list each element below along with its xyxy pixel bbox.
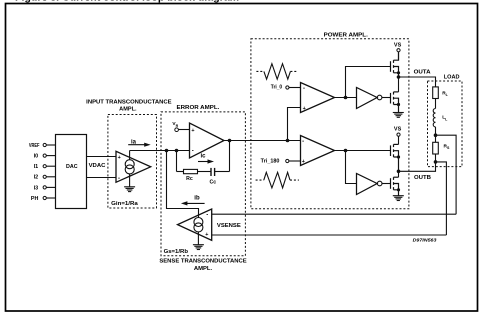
LOAD dashed box bbox=[428, 81, 463, 167]
summing wire to error amp bbox=[130, 150, 190, 152]
inductor LL bbox=[433, 109, 435, 127]
ib wire from sense amp bbox=[167, 151, 199, 218]
wire L to node1 bbox=[435, 127, 437, 142]
branch node1 to sense top wire bbox=[436, 135, 457, 214]
resistor Rs bbox=[433, 142, 439, 154]
U1 ground stem bbox=[129, 174, 131, 187]
error + sense combined dashed box bbox=[161, 112, 245, 256]
U1 current source circles bbox=[125, 160, 134, 169]
Tri_0 terminal bbox=[286, 86, 289, 89]
ia arrow bbox=[128, 139, 151, 146]
svg-text:ib: ib bbox=[194, 196, 200, 202]
pin I1 wire bbox=[46, 165, 55, 167]
svg-text:I0: I0 bbox=[34, 154, 39, 160]
input transconductance amp triangle U1 bbox=[116, 151, 151, 182]
svg-text:-: - bbox=[206, 213, 208, 219]
svg-text:SENSE TRANSCONDUCTANCE: SENSE TRANSCONDUCTANCE bbox=[159, 259, 247, 265]
pin labels bbox=[29, 143, 40, 202]
svg-text:AMPL.: AMPL. bbox=[194, 266, 213, 272]
svg-text:-: - bbox=[192, 148, 194, 154]
svg-text:VREF: VREF bbox=[29, 143, 40, 149]
inverter B bbox=[357, 174, 378, 195]
wire Rs to node2 bbox=[435, 154, 437, 162]
node OUTB bbox=[397, 170, 401, 174]
error output wire to comparators bbox=[224, 140, 301, 142]
svg-text:I3: I3 bbox=[34, 185, 39, 191]
svg-text:LOAD: LOAD bbox=[444, 75, 460, 81]
node2 bbox=[434, 160, 438, 164]
MOSFET B high-side bbox=[391, 144, 399, 171]
OUTA wire to load bbox=[399, 77, 436, 87]
svg-text:OUTA: OUTA bbox=[414, 70, 431, 76]
feedback drop wire bbox=[176, 151, 178, 172]
branch up to comparator A + input bbox=[288, 108, 301, 141]
node dot A (ib tap) bbox=[165, 149, 169, 153]
svg-text:PH: PH bbox=[31, 196, 39, 202]
sense wire bottom (+ input) bbox=[212, 234, 447, 236]
U1 output vertical bbox=[129, 151, 131, 160]
svg-text:ERROR AMPL.: ERROR AMPL. bbox=[177, 105, 220, 111]
resistor RL bbox=[433, 87, 439, 99]
MOSFET A high-side bbox=[391, 52, 399, 77]
svg-text:ia: ia bbox=[131, 139, 137, 145]
svg-text:DAC: DAC bbox=[66, 164, 78, 170]
capacitor Cc bbox=[211, 168, 215, 176]
ground under B low-side bbox=[393, 196, 404, 201]
U3 ground stem bbox=[197, 232, 199, 245]
ib arrow bbox=[181, 196, 205, 206]
svg-text:VS: VS bbox=[394, 42, 402, 48]
svg-text:INPUT TRANSCONDUCTANCE: INPUT TRANSCONDUCTANCE bbox=[86, 99, 172, 105]
wire Rc to Cc bbox=[198, 171, 212, 173]
svg-text:OUTB: OUTB bbox=[414, 175, 431, 181]
comparator A output bbox=[335, 97, 357, 99]
branch to inverter B bbox=[346, 151, 357, 184]
resistor Rc bbox=[184, 169, 198, 173]
MOSFET A low-side bbox=[398, 77, 400, 92]
pin I2 wire bbox=[46, 176, 55, 178]
DAC box bbox=[56, 135, 87, 209]
inverter A bbox=[357, 88, 378, 109]
svg-text:POWER AMPL.: POWER AMPL. bbox=[324, 32, 369, 38]
error op-amp triangle U2 bbox=[190, 123, 225, 158]
VDAC wires bbox=[86, 157, 116, 178]
triangle wave generator Tri_0 bbox=[256, 64, 297, 79]
branch to high side gate A bbox=[346, 67, 391, 98]
node dot error output bbox=[228, 139, 232, 143]
svg-text:Gin=1/Ra: Gin=1/Ra bbox=[111, 201, 138, 207]
wire RL to L bbox=[435, 99, 437, 109]
svg-text:Cc: Cc bbox=[209, 180, 216, 186]
svg-text:+: + bbox=[302, 159, 305, 165]
sense transconductance amp triangle U3 bbox=[178, 209, 212, 240]
wire to Rc bbox=[177, 171, 184, 173]
pin I0 wire bbox=[46, 155, 55, 157]
svg-text:VDAC: VDAC bbox=[89, 163, 106, 169]
svg-text:Rc: Rc bbox=[186, 176, 193, 182]
svg-text:I2: I2 bbox=[34, 175, 39, 181]
svg-text:+: + bbox=[303, 106, 306, 112]
svg-text:+: + bbox=[191, 128, 194, 134]
MOSFET B low-side bbox=[398, 171, 400, 177]
Tri_180 terminal bbox=[286, 159, 289, 162]
svg-text:-: - bbox=[303, 86, 305, 92]
node dot B (feedback tap) bbox=[175, 149, 179, 153]
svg-text:-: - bbox=[118, 176, 120, 182]
ground under A low-side bbox=[393, 113, 404, 118]
pin PH wire bbox=[46, 197, 55, 199]
node dot main branch bbox=[286, 139, 290, 143]
svg-text:-: - bbox=[302, 139, 304, 145]
svg-text:AMPL.: AMPL. bbox=[119, 106, 137, 112]
triangle wave generator Tri_180 bbox=[256, 172, 299, 188]
svg-text:VS: VS bbox=[394, 127, 402, 133]
comparator A bbox=[301, 83, 335, 113]
pin terminal circles bbox=[43, 143, 46, 199]
node1 bbox=[434, 133, 438, 137]
svg-text:D97IN563: D97IN563 bbox=[413, 238, 437, 244]
svg-text:Tri_0: Tri_0 bbox=[271, 85, 282, 91]
sense wire top (- input) bbox=[212, 213, 456, 215]
power ampl dashed box bbox=[251, 39, 409, 209]
input transconductance dashed box bbox=[108, 115, 157, 209]
svg-text:+: + bbox=[118, 155, 121, 161]
comparator B output bbox=[335, 150, 391, 152]
pin I3 wire bbox=[46, 186, 55, 188]
inverter A output wire bbox=[382, 97, 391, 99]
VR wire bbox=[179, 129, 190, 131]
svg-text:VSENSE: VSENSE bbox=[217, 223, 242, 229]
comparator B bbox=[301, 136, 335, 166]
svg-text:Gs=1/Rb: Gs=1/Rb bbox=[164, 249, 188, 255]
OUTB wire to load bbox=[399, 162, 436, 171]
svg-text:I1: I1 bbox=[34, 164, 39, 170]
svg-text:Tri_180: Tri_180 bbox=[261, 159, 280, 165]
branch node2 to sense bottom wire bbox=[436, 162, 447, 235]
ground under U1 bbox=[124, 187, 135, 192]
svg-text:+: + bbox=[205, 232, 208, 238]
pin VREF wire bbox=[46, 144, 55, 146]
ic arrow bbox=[198, 154, 214, 164]
U3 current source circles bbox=[194, 218, 203, 227]
svg-text:ic: ic bbox=[201, 154, 207, 160]
node OUTA bbox=[397, 75, 401, 79]
wire Cc to output rise bbox=[215, 171, 230, 173]
ground under U3 bbox=[193, 245, 204, 250]
